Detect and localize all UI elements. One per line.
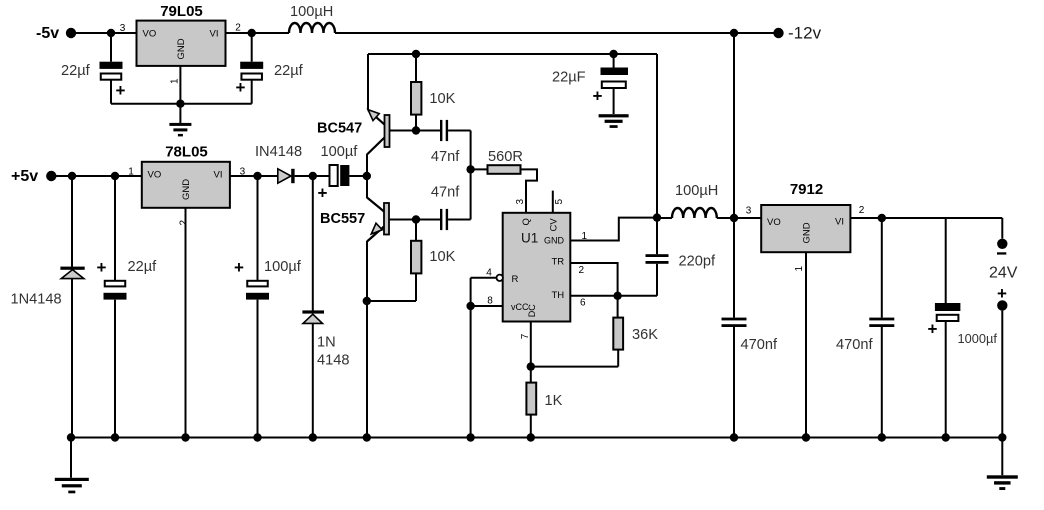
svg-text:8: 8 bbox=[487, 295, 493, 306]
svg-text:2: 2 bbox=[579, 265, 585, 276]
svg-text:-12v: -12v bbox=[788, 23, 822, 42]
svg-text:1: 1 bbox=[794, 266, 805, 272]
svg-text:-5v: -5v bbox=[36, 25, 59, 42]
svg-text:6: 6 bbox=[580, 298, 586, 309]
svg-text:BC557: BC557 bbox=[320, 211, 365, 227]
svg-text:47nf: 47nf bbox=[431, 185, 460, 201]
svg-text:47nf: 47nf bbox=[431, 149, 460, 165]
svg-text:3: 3 bbox=[515, 199, 526, 205]
svg-text:VO: VO bbox=[143, 29, 157, 40]
svg-text:VI: VI bbox=[214, 170, 223, 181]
svg-text:78L05: 78L05 bbox=[165, 144, 208, 161]
svg-text:100µf: 100µf bbox=[264, 259, 302, 275]
svg-text:+: + bbox=[236, 78, 246, 97]
svg-text:VI: VI bbox=[835, 217, 844, 228]
svg-text:1N: 1N bbox=[317, 335, 336, 351]
svg-text:BC547: BC547 bbox=[317, 121, 362, 137]
svg-text:+: + bbox=[234, 258, 244, 277]
svg-text:VO: VO bbox=[767, 217, 781, 228]
svg-text:22µF: 22µF bbox=[552, 70, 586, 86]
svg-text:560R: 560R bbox=[488, 149, 523, 165]
svg-text:DC: DC bbox=[527, 304, 537, 317]
svg-text:100µH: 100µH bbox=[675, 183, 718, 199]
svg-text:100µf: 100µf bbox=[321, 144, 359, 160]
svg-text:7: 7 bbox=[520, 333, 531, 339]
svg-text:1K: 1K bbox=[545, 393, 563, 409]
svg-text:22µf: 22µf bbox=[274, 63, 304, 79]
svg-text:2: 2 bbox=[235, 23, 241, 34]
svg-text:2: 2 bbox=[859, 205, 865, 216]
svg-text:5: 5 bbox=[554, 199, 565, 205]
svg-text:+: + bbox=[97, 258, 107, 277]
svg-text:100µH: 100µH bbox=[290, 4, 333, 20]
svg-text:+: + bbox=[997, 284, 1007, 303]
svg-text:10K: 10K bbox=[429, 249, 455, 265]
svg-text:220pf: 220pf bbox=[679, 254, 716, 270]
svg-text:4148: 4148 bbox=[317, 353, 349, 369]
svg-text:VI: VI bbox=[210, 29, 219, 40]
svg-text:+: + bbox=[593, 87, 603, 106]
svg-text:TH: TH bbox=[552, 290, 565, 301]
svg-text:+: + bbox=[318, 184, 328, 203]
svg-text:TR: TR bbox=[552, 257, 565, 268]
svg-text:+5v: +5v bbox=[11, 168, 38, 185]
svg-text:CV: CV bbox=[549, 218, 560, 232]
svg-text:IN4148: IN4148 bbox=[255, 144, 302, 160]
svg-text:3: 3 bbox=[746, 205, 752, 216]
svg-text:24V: 24V bbox=[989, 264, 1018, 281]
svg-text:1: 1 bbox=[128, 167, 134, 178]
svg-text:4: 4 bbox=[486, 268, 492, 279]
svg-text:+: + bbox=[116, 81, 126, 100]
svg-text:470nf: 470nf bbox=[836, 337, 873, 353]
svg-text:79L05: 79L05 bbox=[160, 3, 203, 20]
svg-text:U1: U1 bbox=[521, 231, 538, 246]
svg-text:470nf: 470nf bbox=[741, 337, 778, 353]
svg-text:36K: 36K bbox=[632, 327, 658, 343]
svg-text:GND: GND bbox=[802, 222, 813, 243]
svg-text:GND: GND bbox=[181, 179, 192, 200]
svg-text:3: 3 bbox=[120, 23, 126, 34]
svg-text:1: 1 bbox=[170, 78, 181, 84]
svg-text:GND: GND bbox=[544, 236, 565, 246]
svg-text:22µf: 22µf bbox=[61, 63, 91, 79]
svg-text:2: 2 bbox=[179, 220, 190, 226]
svg-text:R: R bbox=[512, 274, 519, 285]
svg-text:+: + bbox=[928, 320, 938, 339]
svg-text:VO: VO bbox=[148, 170, 162, 181]
svg-text:GND: GND bbox=[176, 38, 187, 59]
svg-text:1N4148: 1N4148 bbox=[11, 291, 62, 307]
svg-text:22µf: 22µf bbox=[128, 259, 158, 275]
svg-text:7912: 7912 bbox=[790, 181, 823, 198]
svg-text:1000µf: 1000µf bbox=[958, 331, 998, 346]
svg-text:Q: Q bbox=[521, 218, 532, 225]
svg-text:1: 1 bbox=[582, 231, 588, 242]
svg-text:10K: 10K bbox=[429, 91, 455, 107]
